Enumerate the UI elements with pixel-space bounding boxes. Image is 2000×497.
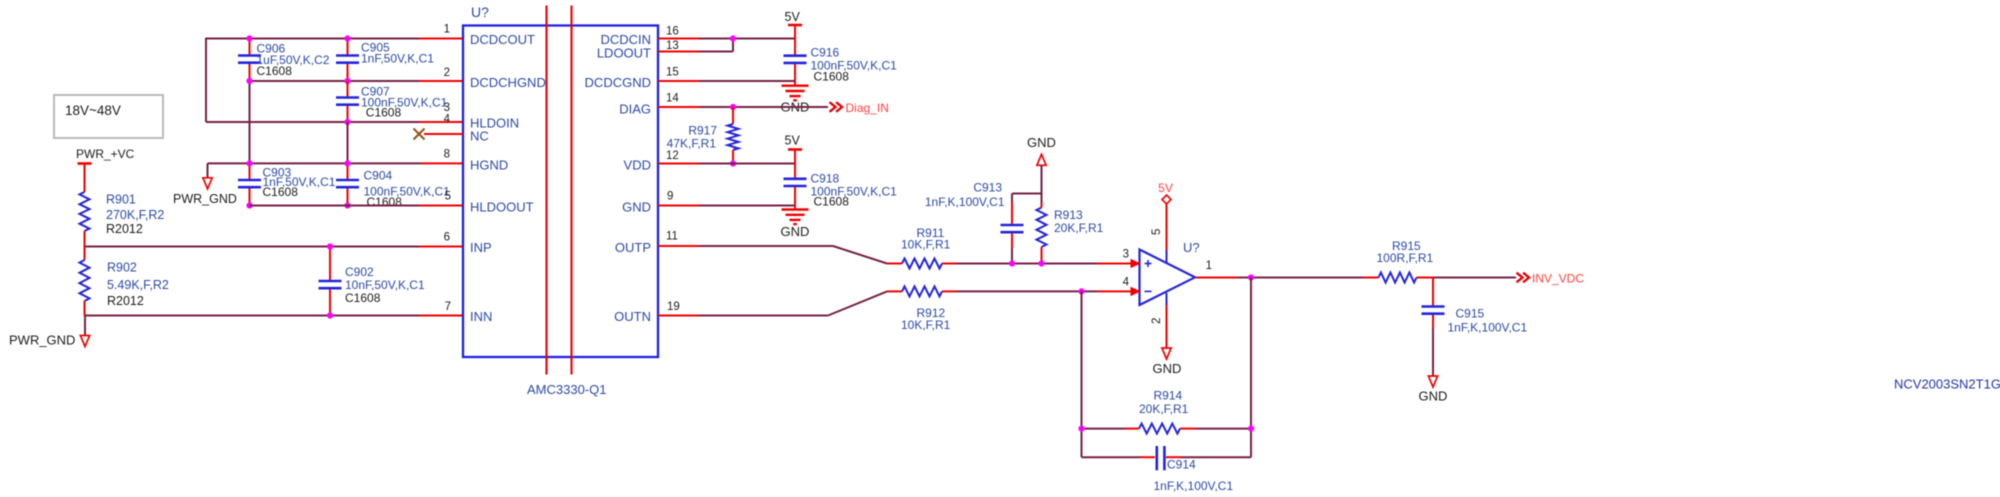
capacitor C903 bbox=[238, 163, 336, 205]
capacitor C915 bbox=[1422, 278, 1528, 376]
resistor R901 bbox=[80, 192, 165, 247]
junction pins 16/13 bbox=[730, 35, 736, 41]
power flag 5V (op-amp pin 5) bbox=[1158, 181, 1173, 262]
svg-text:47K,F,R1: 47K,F,R1 bbox=[667, 137, 717, 151]
svg-text:1nF,K,100V,C1: 1nF,K,100V,C1 bbox=[1448, 321, 1528, 335]
svg-text:C1608: C1608 bbox=[263, 185, 299, 199]
svg-text:20K,F,R1: 20K,F,R1 bbox=[1054, 221, 1104, 235]
power flag PWR_+VC bbox=[76, 147, 135, 192]
svg-text:8: 8 bbox=[444, 149, 450, 161]
svg-text:5V: 5V bbox=[785, 10, 801, 24]
port Diag_IN bbox=[830, 101, 889, 115]
power flag GND (above C913/R913) bbox=[1027, 135, 1056, 194]
svg-text:5: 5 bbox=[1151, 229, 1163, 235]
svg-text:INN: INN bbox=[470, 309, 492, 324]
resistor R902 bbox=[80, 247, 169, 316]
svg-text:18V~48V: 18V~48V bbox=[65, 103, 121, 118]
op-amp input arrow pin 3 bbox=[1131, 260, 1140, 268]
svg-text:DCDCOUT: DCDCOUT bbox=[470, 32, 535, 47]
svg-text:INV_VDC: INV_VDC bbox=[1532, 272, 1584, 286]
svg-text:10K,F,R1: 10K,F,R1 bbox=[901, 318, 951, 332]
junction C904 bottom bbox=[344, 202, 350, 208]
wire op-amp output pin 1 bbox=[1195, 277, 1363, 279]
wire INN (divider bottom to pin 7) bbox=[85, 315, 463, 317]
wire feedback left vertical bbox=[1081, 291, 1083, 457]
wire VDD pin 12 to 5V rail bbox=[658, 163, 795, 165]
svg-text:5.49K,F,R2: 5.49K,F,R2 bbox=[107, 278, 169, 292]
junction R913 bottom bbox=[1038, 260, 1044, 266]
svg-text:3: 3 bbox=[1123, 249, 1129, 261]
svg-text:R2012: R2012 bbox=[106, 222, 143, 236]
svg-text:DCDCGND: DCDCGND bbox=[585, 75, 651, 90]
wire feedback right vertical bbox=[1250, 278, 1252, 458]
svg-text:C1608: C1608 bbox=[345, 291, 381, 305]
svg-text:10K,F,R1: 10K,F,R1 bbox=[901, 238, 951, 252]
svg-text:5: 5 bbox=[445, 191, 451, 203]
wire DCDCGND pin 15 to ground bbox=[658, 80, 795, 82]
svg-text:LDOOUT: LDOOUT bbox=[597, 46, 651, 61]
svg-text:9: 9 bbox=[667, 191, 673, 203]
svg-text:2: 2 bbox=[1151, 318, 1163, 324]
junction R917/VDD bbox=[730, 160, 736, 166]
junction C906 top bbox=[246, 35, 252, 41]
svg-text:OUTP: OUTP bbox=[615, 240, 651, 255]
svg-text:R2012: R2012 bbox=[107, 294, 144, 308]
junction C904 top bbox=[344, 160, 350, 166]
svg-text:2: 2 bbox=[444, 67, 450, 79]
no-connect X on pin 4 bbox=[414, 129, 464, 140]
wire R911 output to op-amp noninverting input bbox=[956, 263, 1131, 265]
wire vertical link HLDOIN row to HGND row bbox=[347, 122, 349, 163]
junction DIAG / R917 bbox=[730, 104, 736, 110]
junction C902 bottom bbox=[327, 312, 333, 318]
svg-text:R913: R913 bbox=[1054, 208, 1083, 222]
svg-text:1: 1 bbox=[444, 24, 450, 36]
svg-text:3: 3 bbox=[444, 102, 450, 114]
wire vertical link DCDCHGND to HGND bbox=[249, 81, 251, 163]
junction C913 bottom bbox=[1009, 260, 1015, 266]
wire DCDCIN pin 16 to 5V rail bbox=[658, 38, 795, 40]
svg-text:U?: U? bbox=[471, 4, 489, 20]
ground earth symbol (C916) bbox=[781, 86, 810, 115]
svg-text:10nF,50V,K,C1: 10nF,50V,K,C1 bbox=[345, 278, 425, 292]
svg-text:C918: C918 bbox=[811, 172, 840, 186]
svg-text:VDD: VDD bbox=[624, 158, 651, 173]
svg-text:1nF,K,100V,C1: 1nF,K,100V,C1 bbox=[1154, 479, 1234, 493]
svg-text:GND: GND bbox=[781, 224, 810, 239]
junction output / feedback bbox=[1248, 274, 1254, 280]
wire GND pin 9 to ground bbox=[658, 205, 795, 207]
op-amp U2 triangle bbox=[1140, 240, 1200, 305]
svg-text:13: 13 bbox=[666, 40, 679, 52]
svg-text:270K,F,R2: 270K,F,R2 bbox=[106, 208, 164, 222]
wire HGND (pin 8) to PWR_GND bbox=[208, 163, 464, 177]
svg-text:DCDCHGND: DCDCHGND bbox=[470, 75, 546, 90]
svg-text:NC: NC bbox=[470, 129, 489, 144]
svg-text:C915: C915 bbox=[1456, 307, 1485, 321]
svg-text:4: 4 bbox=[444, 114, 451, 126]
svg-text:GND: GND bbox=[1153, 361, 1182, 376]
svg-text:PWR_GND: PWR_GND bbox=[9, 333, 75, 348]
junction inverting input / feedback bbox=[1078, 288, 1084, 294]
svg-text:4: 4 bbox=[1123, 277, 1130, 289]
svg-text:11: 11 bbox=[666, 231, 678, 243]
svg-text:C913: C913 bbox=[973, 181, 1002, 195]
capacitor C905 bbox=[336, 39, 434, 82]
svg-text:R914: R914 bbox=[1154, 389, 1183, 403]
note box 18V~48V bbox=[54, 95, 163, 138]
svg-text:14: 14 bbox=[666, 93, 679, 105]
junction C905 bottom bbox=[344, 78, 350, 84]
svg-text:NCV2003SN2T1G: NCV2003SN2T1G bbox=[1894, 377, 2000, 392]
svg-text:INP: INP bbox=[470, 240, 492, 255]
svg-text:PWR_GND: PWR_GND bbox=[173, 192, 237, 206]
svg-text:R901: R901 bbox=[106, 193, 136, 207]
power flag 5V (C916) bbox=[785, 10, 803, 56]
capacitor C913 bbox=[925, 181, 1042, 264]
ground earth symbol (C918) bbox=[781, 210, 810, 240]
svg-text:C914: C914 bbox=[1167, 458, 1196, 472]
resistor R917 bbox=[667, 107, 739, 164]
svg-text:Diag_IN: Diag_IN bbox=[846, 101, 889, 115]
wire OUTP pin 11 to R911 bbox=[658, 246, 887, 264]
op-amp input arrow pin 4 bbox=[1131, 288, 1140, 296]
svg-text:100R,F,R1: 100R,F,R1 bbox=[1377, 251, 1434, 265]
resistor R915 bbox=[1363, 239, 1434, 283]
wire INP (R901/R902 divider to pin 6) bbox=[85, 246, 463, 248]
svg-text:GND: GND bbox=[622, 200, 651, 215]
junction C907 bottom bbox=[344, 119, 350, 125]
wire DCDCOUT (pin 1 loop to HLDOIN pin 3) bbox=[206, 38, 463, 122]
svg-text:R917: R917 bbox=[688, 124, 717, 138]
svg-text:PWR_+VC: PWR_+VC bbox=[76, 147, 135, 161]
svg-text:1nF,K,100V,C1: 1nF,K,100V,C1 bbox=[925, 195, 1005, 209]
svg-text:6: 6 bbox=[444, 232, 450, 244]
svg-text:C916: C916 bbox=[811, 46, 840, 60]
svg-text:C902: C902 bbox=[345, 265, 374, 279]
power flag PWR_GND (bottom left) bbox=[9, 316, 90, 348]
svg-text:15: 15 bbox=[666, 67, 679, 79]
svg-text:R902: R902 bbox=[107, 261, 137, 275]
power flag PWR_GND (upper) bbox=[173, 178, 237, 206]
power flag GND (op-amp pin 2) bbox=[1153, 293, 1182, 376]
power flag 5V (C918) bbox=[785, 134, 803, 179]
capacitor C916 bbox=[784, 46, 898, 86]
svg-text:GND: GND bbox=[1027, 135, 1056, 150]
wire R912 output to op-amp inverting input bbox=[956, 290, 1131, 292]
capacitor C904 bbox=[336, 163, 450, 209]
capacitor C906 bbox=[238, 39, 330, 82]
svg-text:16: 16 bbox=[666, 26, 679, 38]
svg-text:12: 12 bbox=[666, 150, 679, 162]
resistor R912 bbox=[887, 286, 956, 332]
svg-text:HGND: HGND bbox=[470, 158, 508, 173]
junction R914 right bbox=[1248, 426, 1254, 432]
svg-text:C1608: C1608 bbox=[814, 195, 850, 209]
junction C905 top bbox=[344, 35, 350, 41]
capacitor C918 bbox=[784, 172, 898, 210]
port INV_VDC bbox=[1517, 272, 1585, 286]
wire LDOOUT pin 13 joins pin 16 bbox=[658, 39, 733, 52]
isolation barrier line 1 bbox=[545, 6, 547, 375]
svg-text:HLDOOUT: HLDOOUT bbox=[470, 200, 534, 215]
wire R915 to INV_VDC port bbox=[1433, 277, 1516, 279]
wire OUTN pin 19 to R912 bbox=[658, 291, 887, 315]
svg-text:GND: GND bbox=[1419, 389, 1448, 404]
svg-text:U?: U? bbox=[1183, 240, 1200, 255]
svg-text:C1608: C1608 bbox=[367, 195, 403, 209]
capacitor C907 bbox=[336, 81, 448, 122]
svg-text:20K,F,R1: 20K,F,R1 bbox=[1139, 402, 1189, 416]
capacitor C914 bbox=[1082, 446, 1252, 493]
junction C902 top bbox=[327, 243, 333, 249]
op-amp U1 AMC3330-Q1 main IC body bbox=[463, 4, 658, 357]
svg-text:AMC3330-Q1: AMC3330-Q1 bbox=[527, 382, 606, 397]
svg-text:5V: 5V bbox=[1158, 181, 1173, 195]
wire DCDCHGND (pin 2) bbox=[250, 80, 464, 82]
resistor R911 bbox=[887, 226, 956, 269]
svg-text:5V: 5V bbox=[785, 134, 801, 148]
svg-text:DIAG: DIAG bbox=[619, 102, 651, 117]
svg-text:C1608: C1608 bbox=[814, 70, 850, 84]
wire DIAG pin 14 to Diag_IN port bbox=[658, 106, 828, 108]
junction C906 bottom bbox=[246, 78, 252, 84]
resistor R913 bbox=[1037, 194, 1104, 264]
svg-text:C1608: C1608 bbox=[257, 64, 293, 78]
svg-text:19: 19 bbox=[667, 301, 680, 313]
svg-text:7: 7 bbox=[445, 301, 451, 313]
junction R914 left bbox=[1078, 426, 1084, 432]
wire HLDOOUT (pin 5) bbox=[250, 205, 464, 207]
junction C903 bottom bbox=[246, 202, 252, 208]
svg-text:1: 1 bbox=[1206, 260, 1212, 272]
resistor R914 bbox=[1082, 389, 1252, 434]
svg-text:OUTN: OUTN bbox=[614, 309, 651, 324]
isolation barrier line 2 bbox=[570, 6, 572, 375]
svg-text:C1608: C1608 bbox=[366, 106, 402, 120]
capacitor C902 bbox=[319, 247, 425, 316]
svg-text:1nF,50V,K,C1: 1nF,50V,K,C1 bbox=[361, 52, 434, 66]
junction C903 top bbox=[246, 160, 252, 166]
svg-text:C904: C904 bbox=[364, 169, 393, 183]
power flag GND (C915) bbox=[1419, 376, 1448, 404]
